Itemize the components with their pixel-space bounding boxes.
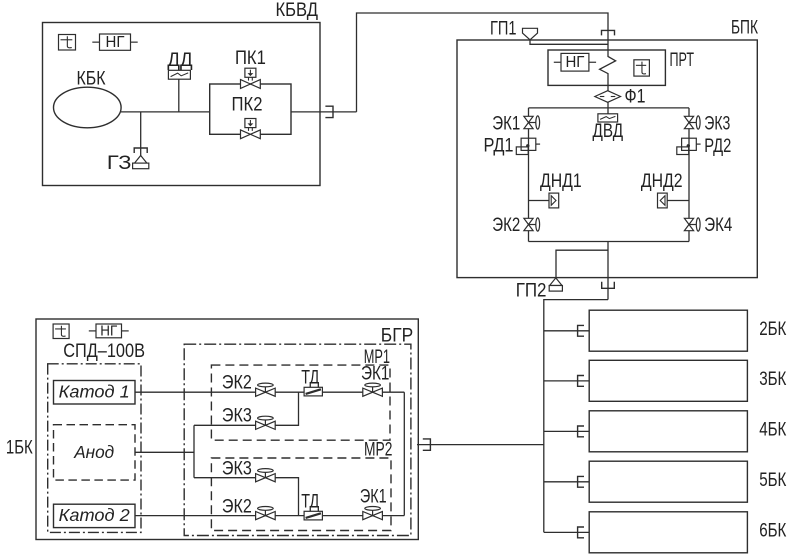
high pressure sensor ДВД (593, 114, 624, 142)
svg-text:ГЗ: ГЗ (107, 153, 132, 174)
wire stub to 5БК (544, 481, 589, 483)
svg-text:ЭК2: ЭК2 (492, 215, 520, 236)
wire Ф1 to manifold (607, 102, 609, 108)
svg-text:ПК1: ПК1 (235, 48, 266, 69)
throttle zigzag in ПРТ (600, 50, 616, 85)
block БПК enclosure (457, 40, 757, 278)
electro valve ЭК3 (БПК) (684, 113, 730, 134)
connector joint at КБВД outlet (325, 106, 333, 117)
wire БПК left branch (528, 108, 530, 242)
svg-text:3БК: 3БК (759, 369, 786, 390)
electro valve ЭК1 (МР1) (361, 363, 389, 396)
pressure regulator РД1 (484, 135, 541, 156)
electro valve ЭК1 (БПК) (492, 113, 539, 134)
heater НГ (ПРТ) (554, 53, 596, 71)
svg-text:ЭК1: ЭК1 (492, 113, 520, 134)
wire КБК to ПК block (121, 111, 210, 113)
wire ДНД2 stub (667, 200, 689, 202)
filter Ф1 (595, 86, 646, 107)
low pressure sensor ДНД1 (540, 171, 582, 208)
wire stub to 6БК (544, 531, 589, 533)
pyro valve ПК1 (235, 48, 266, 88)
connector joint at БПК outlet (602, 282, 615, 289)
thermo throttle ТД (МР1) (301, 367, 322, 396)
block 1БК enclosure (36, 319, 418, 540)
svg-text:НГ: НГ (565, 54, 584, 71)
connector joint at 6БК (578, 527, 584, 538)
heater НГ (1БК) (89, 323, 129, 340)
svg-text:Катод 1: Катод 1 (59, 382, 130, 402)
svg-text:Анод: Анод (73, 442, 114, 462)
svg-text:НГ: НГ (106, 34, 125, 51)
wire БГР output manifold (403, 392, 405, 515)
wire КБВД to БПК top run (357, 13, 609, 112)
thruster block 5БК (589, 461, 786, 502)
wire БПК bottom manifold (529, 241, 690, 243)
tank КБК (54, 68, 122, 127)
temperature sensor t (КБВД) (59, 35, 76, 51)
svg-text:РД2: РД2 (704, 136, 731, 157)
connector joint at 2БК (578, 325, 584, 336)
svg-text:МР2: МР2 (364, 440, 392, 461)
svg-text:2БК: 2БК (759, 319, 786, 340)
connector joint at ГЗ (134, 148, 147, 153)
thruster block 6БК (589, 512, 786, 553)
connector joint at 5БК (578, 476, 584, 487)
svg-text:5БК: 5БК (759, 470, 786, 491)
svg-text:ТД: ТД (301, 491, 319, 512)
wire БГР outlet to feeder (417, 444, 544, 446)
wire ДД stem (178, 79, 180, 112)
heater НГ (КБВД) (92, 34, 137, 51)
thruster СПД-100В dash-dot box (48, 364, 141, 533)
manifold МР2 dashed box (211, 458, 391, 531)
wire Катод 1 line (135, 391, 404, 393)
electro valve ЭК2 (БПК) (492, 215, 539, 236)
electro valve ЭК3 (МР2) (222, 458, 275, 482)
svg-text:ЭК4: ЭК4 (704, 215, 732, 236)
block БГР dash-dot box (184, 344, 411, 535)
connector joint at БГР outlet (423, 439, 431, 450)
svg-text:ЭК3: ЭК3 (222, 406, 252, 427)
cathode block Катод 1 (54, 381, 136, 405)
pyro valve ПК2 (232, 94, 263, 138)
wire stub to 3БК (544, 380, 589, 382)
wire ЭК3 branch МР2 (194, 478, 299, 516)
svg-text:6БК: 6БК (759, 521, 786, 542)
connector joint at БПК inlet (602, 30, 615, 35)
svg-text:ЭК1: ЭК1 (360, 486, 387, 507)
svg-text:СПД–100В: СПД–100В (63, 341, 145, 362)
thruster block 2БК (589, 310, 786, 351)
wire ЭК3 branch МР1 (194, 392, 299, 425)
svg-text:ПК2: ПК2 (232, 94, 263, 115)
thruster block 4БК (589, 411, 786, 452)
wire БПК outlet pipe (607, 242, 609, 300)
svg-text:ЭК2: ЭК2 (222, 496, 252, 517)
electro valve ЭК2 (МР1) (222, 372, 275, 396)
svg-text:1БК: 1БК (6, 437, 33, 458)
svg-text:БГР: БГР (381, 326, 413, 347)
fill port ГЗ (107, 153, 149, 174)
svg-text:ГП2: ГП2 (516, 281, 547, 302)
svg-text:НГ: НГ (100, 323, 117, 340)
pressure regulator РД2 (677, 136, 732, 157)
redundant valve block ПК frame (210, 84, 291, 134)
wire БПК right branch (688, 108, 690, 242)
wire ГЗ stem (140, 112, 142, 156)
block КБВД enclosure (43, 23, 321, 186)
wire stub to 2БК (544, 330, 589, 332)
electro valve ЭК2 (МР2) (222, 496, 275, 519)
wire Анод split manifold (193, 425, 195, 477)
anode block Анод (54, 425, 136, 480)
svg-text:ДВД: ДВД (593, 121, 624, 142)
electro valve ЭК3 (МР1) (222, 406, 275, 430)
temperature sensor t (ПРТ) (634, 60, 650, 76)
temperature sensor t (1БК) (53, 324, 69, 339)
svg-text:ДНД2: ДНД2 (641, 171, 683, 192)
svg-text:ДНД1: ДНД1 (540, 171, 582, 192)
pressure sensor ДД (167, 50, 192, 79)
svg-text:ЭК3: ЭК3 (222, 458, 252, 479)
connector joint at 4БК (578, 426, 584, 437)
electro valve ЭК4 (БПК) (684, 215, 732, 236)
fill port ГП2 (516, 278, 563, 302)
svg-text:КБК: КБК (77, 68, 106, 89)
low pressure sensor ДНД2 (641, 171, 683, 208)
svg-text:Катод 2: Катод 2 (59, 505, 130, 525)
connector joint at 3БК (578, 376, 584, 387)
svg-text:ТД: ТД (301, 367, 319, 388)
wire Анод line (135, 451, 194, 453)
svg-text:ДД: ДД (167, 50, 192, 71)
svg-text:Ф1: Ф1 (625, 86, 646, 107)
thermo throttle ТД (МР2) (301, 491, 322, 520)
wire ДВД stem (607, 108, 609, 114)
thruster block 3БК (589, 360, 786, 401)
wire stub to 4БК (544, 430, 589, 432)
wire ПРТ to Ф1 (607, 85, 609, 90)
wire ГП2 branch (556, 250, 608, 277)
electro valve ЭК1 (МР2) (360, 486, 387, 519)
fill port ГП1 (490, 18, 538, 40)
svg-text:БПК: БПК (731, 18, 758, 39)
wire feeder run to БК boxes (544, 300, 608, 533)
svg-text:КБВД: КБВД (276, 0, 319, 21)
wire БПК top manifold (529, 107, 690, 109)
wire ГП1 to main pipe (530, 40, 608, 45)
cathode block Катод 2 (54, 504, 136, 527)
wire ПК block to КБВД edge (291, 111, 357, 113)
svg-text:ПРТ: ПРТ (670, 50, 695, 71)
thermal regulator ПРТ box (548, 50, 694, 86)
svg-text:4БК: 4БК (759, 420, 786, 441)
svg-text:ЭК3: ЭК3 (704, 113, 730, 134)
wire ДНД1 stub (529, 200, 550, 202)
manifold МР1 dashed box (211, 365, 390, 440)
svg-text:ЭК2: ЭК2 (222, 372, 252, 393)
svg-text:ГП1: ГП1 (490, 18, 517, 39)
svg-text:РД1: РД1 (484, 135, 514, 156)
wire Катод 2 line (135, 515, 404, 517)
svg-text:ЭК1: ЭК1 (361, 363, 389, 384)
